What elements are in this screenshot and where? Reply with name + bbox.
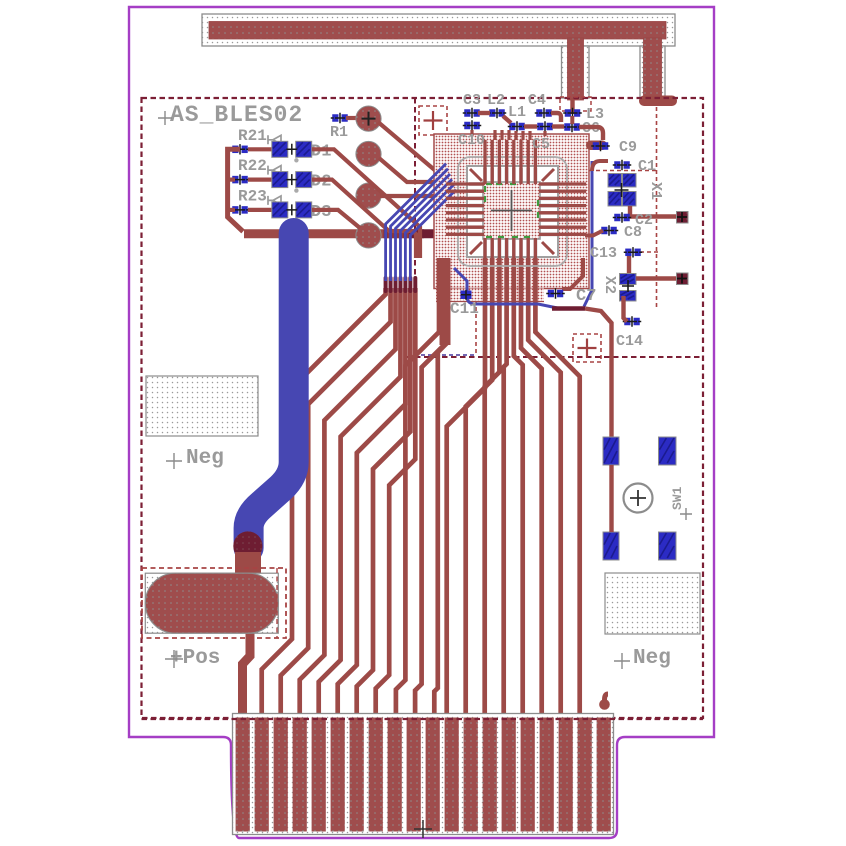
diode D2 [272,172,288,188]
wire finger 2 [262,288,386,720]
wire overlap dark blue crossings [384,229,388,238]
svg-text:C9: C9 [619,139,637,156]
wire finger 19 [535,240,579,720]
antenna drop 2 [644,38,662,98]
wire finger 9 [396,258,439,720]
C11 dashed box [421,300,476,355]
wire thick stub U1 bottom-left [440,258,451,345]
svg-text:C8: C8 [624,224,642,241]
finger 10 [407,718,421,832]
antenna channel left [562,46,590,98]
wire X2 to TP6 [636,276,676,280]
C13 dashed stub [640,251,660,253]
svg-text:R22: R22 [238,157,267,175]
svg-text:C1: C1 [638,158,656,175]
blue wire 5 [405,184,454,281]
board outline [129,7,714,838]
via pair R22 [231,174,250,184]
finger 18 [559,718,573,832]
svg-text:C4: C4 [528,92,546,109]
wire finger 6 [338,288,406,720]
via pair C6cap [591,141,610,151]
wire L3 to C6 [570,116,574,124]
X1 dashed box [589,107,657,308]
diode D1 [272,141,288,157]
via pair C7 [546,288,565,298]
via pair R21 [231,144,250,154]
U1 fanout stubs [446,140,586,258]
pad Pos dashed box [142,568,286,638]
test pad TP4 [356,223,381,248]
wire finger 17 [521,240,542,720]
test pad TP3 [356,183,381,208]
svg-text:Neg: Neg [633,647,671,670]
wire TP3 to U1 [380,196,468,200]
antenna keepout outline [202,14,675,46]
svg-text:R21: R21 [238,127,267,145]
finger 6 [331,718,345,832]
wire finger 10 [415,258,443,720]
finger 20 [597,718,611,832]
test pad TP6 [677,273,689,285]
via caps bottom-layer transitions [384,278,388,291]
blue dashed line [414,354,477,356]
finger 1 [236,718,250,832]
wire C13 to X2 [627,256,631,274]
capacitor C8 [600,225,619,235]
svg-text:X1: X1 [647,182,664,200]
svg-text:L1: L1 [508,104,526,121]
wire finger 11 [434,258,448,720]
wire finger 3 [281,288,391,720]
rf section dashed outline [406,98,703,357]
antenna channel right [640,46,665,98]
wire D3 to U1 [312,210,360,228]
finger 4 [293,718,307,832]
wire R row bus [228,149,243,231]
origin cross [414,820,432,838]
svg-text:D1: D1 [311,142,331,161]
svg-text:SW1: SW1 [670,486,685,510]
finger 2 [255,718,269,832]
fiducial box bottom [573,334,601,362]
diode D3 [272,202,288,218]
finger 7 [350,718,364,832]
via pair C2 [613,212,632,222]
finger 13 [464,718,478,832]
resistor R1 [331,113,350,123]
wire finger 5 [319,288,401,720]
pad Pos [145,573,278,633]
capacitor C1 [613,160,632,170]
svg-text:R1: R1 [330,124,348,141]
svg-text:AS_BLES02: AS_BLES02 [170,102,303,128]
connector dashed line [142,718,704,720]
finger 9 [388,718,402,832]
wire TP2 to U1 [379,158,468,190]
finger 17 [540,718,554,832]
via pair row2 mid [536,121,555,131]
blue wire bottom arc [454,268,560,309]
crystal X2 [620,274,637,285]
svg-text:C10: C10 [458,132,485,149]
wire C6 cap [586,141,607,151]
op-amp U1 QFN [458,157,567,266]
blue wire pour edge [584,161,592,307]
wire R21 to D1 [248,147,272,151]
via pair C14in [623,316,642,326]
finger 11 [426,718,440,832]
via pair R23 [231,205,250,215]
wire finger 15 [504,240,507,720]
blue wire 3 [396,174,451,281]
blue wire 4 [400,179,452,281]
pad Pos outline [145,573,278,633]
ground pour lower lobe [436,289,544,302]
wire overlap dark [552,306,585,311]
finger 3 [274,718,288,832]
finger 15 [502,718,516,832]
svg-text:C14: C14 [616,333,643,350]
test pad TP5 [677,212,689,224]
svg-text:L2: L2 [487,92,505,109]
wire finger 7 [357,288,411,720]
ground pour U1 [434,134,589,289]
switch SW1 [603,437,692,560]
wire finger 4 [300,288,396,720]
test pad TP1 [356,106,381,131]
finger 14 [483,718,497,832]
blue trace main power [249,233,294,548]
wire finger 1 from Pos [243,632,251,720]
blue wire 6 [410,190,456,281]
wire finger 13 [466,240,493,720]
connector outline [233,714,614,835]
wire finger 16 [514,240,523,720]
wire TP1 to U1 [378,122,468,172]
svg-text:R23: R23 [238,187,267,205]
wire D1 to U1 [312,149,420,258]
wire to C7 [562,258,583,289]
cluster wires [478,113,603,140]
blue wire 1 [386,164,446,281]
keepout Neg left [146,376,258,436]
wire finger 8 [376,288,416,720]
finger 19 [578,718,592,832]
wire finger 18 [528,240,561,720]
finger 16 [521,718,535,832]
svg-text:Neg: Neg [186,447,224,470]
wire R1 to TP1 [346,116,360,120]
wire finger 12 [447,240,485,720]
wire X1 to C2 [630,206,676,217]
svg-text:X2: X2 [601,276,618,294]
svg-text:C11: C11 [450,300,479,318]
test pad TP2 [356,141,381,166]
wire R23 to D3 [248,208,272,212]
wire finger 20 hook [605,694,609,704]
capacitor C11 [461,291,472,300]
svg-text:D3: D3 [311,203,331,222]
wire X2 down [624,296,628,322]
antenna drop 1 [568,38,584,100]
antenna trace [209,22,666,40]
wire thick horizontal [244,229,424,238]
wire R22 to D2 [248,178,272,182]
keepout Neg right [605,573,700,634]
antenna feed dashed box [560,97,591,111]
fiducial box top [419,106,447,135]
cluster drop wires into pour [472,130,545,140]
blue wire 2 [391,169,448,281]
svg-text:C3: C3 [463,92,481,109]
finger 8 [369,718,383,832]
finger 5 [312,718,326,832]
crystal X1 [608,174,622,188]
svg-text:C5: C5 [532,136,550,153]
wire to SW1 [585,309,612,438]
finger 12 [445,718,459,832]
svg-text:C13: C13 [590,245,617,262]
wire finger 14 [485,240,500,720]
board dashed outline [142,98,704,718]
wire D2 to U1 [312,180,416,258]
via pair row2 left [463,120,482,130]
svg-text:D2: D2 [311,173,331,192]
via Pos feed [233,531,262,560]
svg-text:C7: C7 [576,287,596,306]
